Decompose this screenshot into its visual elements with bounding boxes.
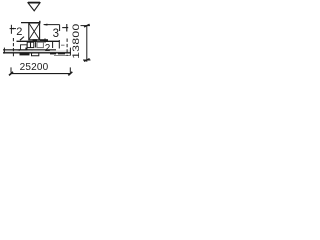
dimension text 13800 (rotated)	[71, 23, 81, 58]
sub-deck dark pad	[20, 53, 30, 55]
bearing box right	[37, 42, 43, 47]
sub-deck U box	[32, 53, 39, 56]
girder dark segment b	[40, 39, 48, 41]
vertical dim: top extension	[81, 25, 91, 27]
right callout arrowhead	[43, 24, 48, 26]
crossed box (pier tower)	[29, 23, 40, 40]
top chord line	[21, 22, 40, 24]
bottom dim: right extension	[69, 67, 71, 72]
deck top line	[3, 49, 56, 51]
vertical dim bottom extension	[83, 59, 91, 61]
brace diagonal 1	[29, 23, 40, 40]
left pier centreline (dashed)	[12, 38, 14, 57]
deck tick mid	[31, 50, 33, 54]
bottom dim: left extension	[10, 67, 12, 72]
sub-deck dashes	[50, 53, 56, 55]
bearing box left	[27, 42, 34, 47]
girder end break mark	[20, 37, 24, 41]
mid dim tick left	[44, 38, 46, 42]
vertical dim top tick	[84, 24, 90, 27]
girder bottom line	[17, 40, 60, 42]
left callout arrowhead	[10, 28, 14, 30]
right callout: extension line down	[59, 25, 61, 31]
water level symbol (triangle)	[28, 3, 40, 11]
brace diagonal 2	[29, 23, 40, 40]
svg-text:25200: 25200	[20, 62, 49, 73]
deck arrow mark	[16, 49, 20, 51]
svg-text:2: 2	[45, 43, 51, 54]
left callout: extension line	[10, 25, 12, 34]
svg-text:13800: 13800	[71, 23, 81, 58]
right structure edge	[58, 40, 60, 49]
bottom dim line	[11, 73, 71, 75]
mid dim tick right	[52, 41, 54, 48]
left callout: dim line	[10, 28, 16, 30]
deck top line	[3, 50, 70, 52]
deck left end tick	[3, 48, 5, 54]
vertical dim bottom tick	[84, 59, 90, 62]
svg-text:3: 3	[53, 28, 59, 40]
girder small dash	[61, 44, 65, 46]
bearing inner line	[30, 42, 32, 47]
right T-node horizontal	[62, 27, 68, 29]
right pier centreline (dashed)	[66, 39, 68, 57]
box corner tick	[39, 21, 41, 24]
bottom dim right tick	[68, 72, 72, 76]
deck bottom line	[3, 52, 71, 54]
post line	[35, 41, 37, 48]
svg-text:2: 2	[16, 26, 22, 38]
girder dark segment	[33, 39, 38, 41]
abutment box dark edge	[25, 48, 27, 51]
vertical dim line	[86, 26, 88, 62]
bottom dim left tick	[9, 72, 13, 76]
right T-node vertical	[66, 24, 68, 32]
right deck end tick	[69, 48, 71, 56]
abutment box above deck	[21, 45, 28, 50]
right callout: dim line	[44, 24, 60, 26]
right pier cap faint line	[54, 55, 71, 57]
